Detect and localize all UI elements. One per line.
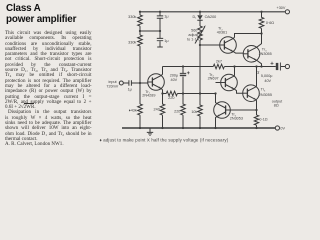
resistor 330k lower	[138, 35, 143, 46]
point X node	[255, 65, 257, 67]
transistor Tr1	[148, 74, 165, 91]
capacitor 1u input	[129, 80, 132, 86]
svg-text:Tr5: Tr5	[261, 88, 266, 93]
svg-text:2N4289: 2N4289	[142, 94, 155, 98]
svg-text:2N3055: 2N3055	[259, 93, 272, 97]
resistor 0.1 ohm	[254, 115, 258, 128]
wire Tr4 emitter to Tr5 base	[234, 89, 242, 93]
input terminal	[119, 81, 123, 85]
wire Tr6 base sense	[230, 109, 256, 111]
resistor 10k	[198, 94, 203, 129]
svg-text:input: input	[108, 80, 117, 84]
wire Tr6 collector column	[216, 94, 217, 104]
svg-text:OA200: OA200	[205, 15, 217, 19]
svg-text:adjust: adjust	[188, 33, 199, 37]
wire down to input node	[139, 46, 141, 83]
title	[6, 3, 76, 25]
wire Tr3 emitter	[257, 60, 262, 66]
svg-text:240: 240	[154, 108, 160, 112]
wire	[139, 26, 141, 35]
ground	[147, 128, 153, 135]
wire Tr5 emitter	[255, 100, 257, 115]
+30V terminal	[285, 10, 289, 14]
svg-text:1μ: 1μ	[164, 39, 168, 43]
svg-text:220: 220	[168, 96, 174, 100]
svg-text:220: 220	[174, 109, 180, 113]
svg-text:40V: 40V	[264, 79, 271, 83]
wire node down	[139, 83, 141, 104]
resistor 240	[160, 94, 165, 129]
body text	[5, 31, 92, 148]
output rail (point X line)	[163, 66, 286, 68]
svg-text:8Ω: 8Ω	[274, 103, 279, 107]
wire to base node	[131, 82, 147, 84]
transistor Tr2	[220, 37, 237, 54]
svg-text:0V: 0V	[280, 127, 285, 131]
resistor 43k	[138, 104, 143, 115]
bottom 0V rail	[122, 127, 275, 129]
wire Tr4 base	[216, 82, 221, 84]
capacitor 5000u output	[276, 63, 279, 70]
wire Tr2 collector	[233, 34, 261, 39]
svg-text:2k7: 2k7	[216, 60, 222, 64]
transistor Tr6 protection (mirrored)	[214, 102, 231, 119]
node dot	[139, 30, 141, 32]
svg-text:200μ: 200μ	[170, 73, 178, 77]
svg-text:1μ: 1μ	[164, 15, 168, 19]
wire	[123, 82, 129, 84]
wire Tr6 emitter	[216, 117, 217, 128]
svg-text:330k: 330k	[128, 41, 136, 45]
top supply rail	[140, 11, 285, 13]
transistor Tr5 output	[243, 85, 260, 102]
svg-text:to 1·1A: to 1·1A	[187, 38, 200, 42]
svg-text:40361: 40361	[217, 31, 227, 35]
svg-text:+30V: +30V	[277, 6, 286, 10]
wire Tr1 collector	[161, 67, 162, 76]
svg-text:0·6Ω: 0·6Ω	[266, 21, 274, 25]
wire Tr5 collector	[255, 67, 257, 87]
svg-text:♦43k: ♦43k	[129, 108, 137, 112]
diode D1	[199, 12, 201, 15]
transistor Tr3	[243, 46, 260, 63]
capacitor C2	[157, 31, 163, 47]
wire left column top	[139, 12, 141, 15]
feedback wire y93.5	[163, 93, 216, 95]
svg-text:0·1Ω: 0·1Ω	[259, 117, 267, 121]
0V terminal	[275, 126, 279, 130]
wire	[139, 115, 141, 128]
svg-text:720mV: 720mV	[106, 85, 118, 89]
output terminal	[285, 64, 289, 68]
wire divider junction	[140, 30, 160, 32]
svg-text:560: 560	[191, 29, 197, 33]
svg-text:1μ: 1μ	[128, 87, 132, 91]
svg-text:2N697: 2N697	[208, 77, 219, 81]
wire Tr2 emitter to Tr3 base	[233, 52, 243, 54]
svg-text:2N3055: 2N3055	[259, 52, 272, 56]
capacitor C1 top	[157, 12, 163, 31]
resistor 220 vertical	[181, 94, 186, 129]
svg-text:10k: 10k	[191, 110, 197, 114]
svg-text:D1: D1	[192, 15, 197, 20]
capacitor 200u	[180, 67, 186, 94]
resistor 2k7	[213, 64, 224, 69]
svg-text:5,000μ: 5,000μ	[261, 74, 273, 78]
svg-text:2N3053: 2N3053	[230, 117, 243, 121]
transistor Tr4 driver	[221, 74, 238, 91]
wire Tr1 emitter	[161, 89, 162, 94]
svg-text:♦ adjust to make point X half: ♦ adjust to make point X half the supply…	[100, 138, 229, 143]
variable resistor 560	[198, 26, 203, 45]
resistor 330k upper	[138, 15, 143, 26]
node A dot	[139, 82, 141, 84]
wire x200 column	[199, 45, 201, 94]
resistor 220 horizontal	[166, 91, 177, 96]
wire Tr2 base	[200, 44, 220, 46]
resistor 0.6 ohm	[259, 12, 264, 34]
svg-text:330k: 330k	[128, 15, 136, 19]
wire Tr4 collector	[233, 67, 235, 76]
svg-text:40V: 40V	[171, 78, 178, 82]
wire Tr3 collector	[257, 34, 262, 48]
